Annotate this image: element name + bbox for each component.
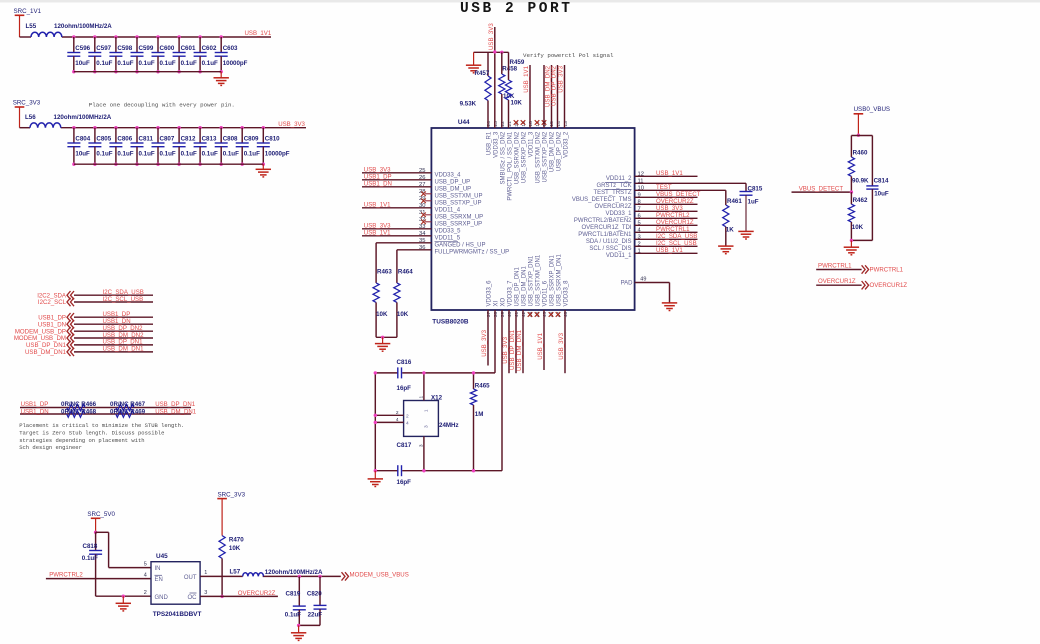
capacitor C820 <box>318 575 321 578</box>
resistor R459 <box>508 52 510 80</box>
svg-text:TUSB8020B: TUSB8020B <box>432 319 469 326</box>
wire net I2C_SCL_USB pin2 <box>635 245 698 247</box>
resistor R458 <box>500 51 503 54</box>
svg-text:Sch design engineer: Sch design engineer <box>19 444 82 451</box>
svg-text:USB_DM_DN1: USB_DM_DN1 <box>25 349 67 356</box>
svg-text:0.1uF: 0.1uF <box>244 150 260 157</box>
no-connect X pin 16 <box>542 120 547 125</box>
wire net USB_1V1 pin12 <box>635 175 698 177</box>
no-connect X pin 20 <box>514 120 519 125</box>
svg-text:SRC_1V1: SRC_1V1 <box>14 8 42 15</box>
svg-text:USB_3V3: USB_3V3 <box>558 65 565 92</box>
wire XO to crystal bottom <box>501 310 503 471</box>
wire USB_3V3 rail <box>20 127 31 129</box>
wire VDD33_2 stub <box>564 65 566 128</box>
svg-text:4: 4 <box>396 417 399 423</box>
svg-text:0R/NC R466: 0R/NC R466 <box>61 401 97 408</box>
svg-text:VDD33_2: VDD33_2 <box>564 131 570 158</box>
wire C820 to C819 join <box>299 624 320 626</box>
svg-text:2: 2 <box>144 590 147 596</box>
svg-text:SRC_3V3: SRC_3V3 <box>13 100 41 107</box>
wire net VBUS_DETECT pin9 <box>635 196 698 198</box>
svg-text:1K: 1K <box>726 227 734 234</box>
svg-text:0.1uF: 0.1uF <box>139 150 155 157</box>
resistor R467 <box>116 404 134 411</box>
svg-text:USB_DP_UP: USB_DP_UP <box>435 180 471 186</box>
svg-text:1: 1 <box>204 570 207 576</box>
wire crystal pin3 <box>423 436 425 470</box>
svg-text:1uF: 1uF <box>748 199 759 206</box>
inductor L56 <box>30 123 61 128</box>
svg-text:USB_SSTXP_DN1: USB_SSTXP_DN1 <box>529 255 535 306</box>
svg-text:SRC_3V3: SRC_3V3 <box>218 492 246 499</box>
svg-text:0.1uF: 0.1uF <box>181 150 197 157</box>
svg-text:10K: 10K <box>511 100 523 107</box>
svg-text:TEST_TRSTZ: TEST_TRSTZ <box>593 190 631 196</box>
capacitor C807 <box>156 126 159 129</box>
svg-text:0.1uF: 0.1uF <box>285 612 301 619</box>
ground crystal <box>374 471 376 479</box>
wire net USB_DM_DN1 <box>74 351 153 353</box>
resistor R463 <box>373 283 379 303</box>
capacitor C600 <box>156 35 159 38</box>
svg-text:L56: L56 <box>25 114 36 121</box>
svg-text:0.1uF: 0.1uF <box>139 60 155 67</box>
svg-text:R463: R463 <box>377 268 392 275</box>
svg-text:VDD11_1: VDD11_1 <box>606 253 632 259</box>
svg-text:VDD11_5: VDD11_5 <box>435 236 461 242</box>
svg-text:USB_SSRXM_DN1: USB_SSRXM_DN1 <box>557 253 563 306</box>
wire crystal pin2 <box>375 414 403 416</box>
svg-text:USB1_DN: USB1_DN <box>103 318 131 325</box>
svg-text:1: 1 <box>419 396 425 399</box>
capacitor C810 <box>262 126 265 129</box>
wire EN row <box>46 578 151 580</box>
svg-text:USB_1V1: USB_1V1 <box>523 65 530 92</box>
svg-text:VDD33_4: VDD33_4 <box>435 173 462 179</box>
wire VBUS_DETECT <box>792 191 852 193</box>
svg-text:USB_1V1: USB_1V1 <box>537 332 544 359</box>
svg-text:VBUS_DETECT: VBUS_DETECT <box>799 185 844 192</box>
svg-text:TEST: TEST <box>656 184 672 191</box>
svg-text:USB_SSTXM_DN1: USB_SSTXM_DN1 <box>536 254 542 306</box>
svg-text:PWRCTRL1: PWRCTRL1 <box>818 262 852 269</box>
resistor R465 <box>473 373 475 389</box>
svg-text:10K: 10K <box>852 224 864 231</box>
svg-text:VDD33_3: VDD33_3 <box>494 131 500 158</box>
wire VDD33_3 <box>494 27 496 128</box>
svg-text:C817: C817 <box>397 442 412 449</box>
svg-text:USB_SSTXP_DN2: USB_SSTXP_DN2 <box>543 131 549 182</box>
capacitor C808 <box>220 126 223 129</box>
wire divider bottom <box>851 239 872 241</box>
svg-text:USB1_DN: USB1_DN <box>364 181 392 188</box>
svg-text:PWRCTRL2: PWRCTRL2 <box>656 212 690 219</box>
svg-text:USB_3V3: USB_3V3 <box>558 332 565 359</box>
wire net USB_3V3 pin25 <box>362 172 431 174</box>
ground 1V1 rail <box>220 72 222 78</box>
svg-text:120ohm/100MHz/2A: 120ohm/100MHz/2A <box>54 23 112 30</box>
svg-text:USB_3V3: USB_3V3 <box>364 167 391 174</box>
svg-text:XO: XO <box>501 297 507 306</box>
top gray strip <box>0 0 1040 3</box>
wire USB_DM_DN2 stub <box>551 65 553 128</box>
svg-text:C599: C599 <box>139 45 154 52</box>
svg-text:PWRCTRL2: PWRCTRL2 <box>49 572 83 579</box>
svg-text:0.1uF: 0.1uF <box>181 60 197 67</box>
resistor R469 <box>116 411 134 418</box>
svg-text:R457: R457 <box>475 70 490 77</box>
wire net PWRCTRL1 pin4 <box>635 231 698 233</box>
wire USB_1V1 rail <box>20 36 32 38</box>
svg-text:C600: C600 <box>160 45 175 52</box>
svg-text:C810: C810 <box>265 136 280 143</box>
svg-text:C603: C603 <box>223 45 238 52</box>
wire gnd row U45 <box>96 595 151 597</box>
svg-text:USB_DM_DN1: USB_DM_DN1 <box>103 346 145 353</box>
svg-text:USB_DP_DN1: USB_DP_DN1 <box>103 339 144 346</box>
svg-text:C806: C806 <box>117 136 132 143</box>
svg-text:OVERCUR1Z: OVERCUR1Z <box>870 282 908 289</box>
svg-text:I2C_SCL_USB: I2C_SCL_USB <box>103 296 144 303</box>
capacitor C816 <box>397 367 399 378</box>
wire crystal pin4 <box>375 421 403 423</box>
svg-text:PAD: PAD <box>621 281 634 287</box>
svg-text:OVERCUR1Z: OVERCUR1Z <box>818 278 856 285</box>
svg-text:USB_DM_DN2: USB_DM_DN2 <box>550 131 556 172</box>
svg-text:R460: R460 <box>853 150 868 157</box>
svg-text:Placement is critical to mini: Placement is critical to minimize the ST… <box>19 422 184 429</box>
svg-text:GANGED / HS_UP: GANGED / HS_UP <box>435 243 486 249</box>
wire crystal left vertical <box>374 373 376 471</box>
svg-text:SCL / SSC_DIS: SCL / SSC_DIS <box>589 246 631 252</box>
svg-text:USB_DP_DN1: USB_DP_DN1 <box>26 342 67 349</box>
svg-text:41: 41 <box>514 312 520 318</box>
svg-text:MODEM_USB_VBUS: MODEM_USB_VBUS <box>350 572 409 579</box>
capacitor C603 <box>220 35 223 38</box>
svg-text:R462: R462 <box>853 197 868 204</box>
overbar GANGED <box>435 241 459 243</box>
svg-text:USB_DM_UP: USB_DM_UP <box>435 187 472 193</box>
wire crystal pin1 <box>423 373 425 401</box>
svg-text:C812: C812 <box>181 136 196 143</box>
svg-text:0.1uF: 0.1uF <box>202 60 218 67</box>
svg-text:VBUS_DETECT_TMS: VBUS_DETECT_TMS <box>572 197 632 203</box>
svg-text:XI: XI <box>494 300 500 306</box>
svg-text:TPS2041BDBVT: TPS2041BDBVT <box>153 611 202 618</box>
svg-text:VDD11_2: VDD11_2 <box>606 176 632 182</box>
svg-text:10K: 10K <box>397 311 409 318</box>
svg-text:USB_3V3: USB_3V3 <box>278 121 305 128</box>
svg-text:USB_R1: USB_R1 <box>487 131 493 155</box>
wire gnd bus 3V3 <box>74 163 263 165</box>
wire OUT row <box>200 575 243 577</box>
svg-text:USB_SSTXP_UP: USB_SSTXP_UP <box>435 201 482 207</box>
svg-text:OVERCUR2Z: OVERCUR2Z <box>238 590 276 597</box>
svg-text:18: 18 <box>528 121 534 127</box>
wire 3V3 horizontal <box>474 51 509 53</box>
no-connect X pin 17 <box>535 120 540 125</box>
resistor R468 <box>67 411 85 418</box>
svg-text:C820: C820 <box>307 590 322 597</box>
svg-text:SRC_5V0: SRC_5V0 <box>87 511 115 518</box>
ground PAD <box>662 302 677 304</box>
svg-text:0.1uF: 0.1uF <box>96 60 112 67</box>
svg-text:Place one decoupling with ever: Place one decoupling with every power pi… <box>89 101 235 108</box>
svg-text:45: 45 <box>542 312 548 318</box>
wire net OVERCUR2Z pin8 <box>635 203 698 205</box>
op-amp U45 body TPS2041BDBVT <box>151 562 200 605</box>
no-connect X pin 28 <box>425 193 431 195</box>
wire net PWRCTRL2 pin6 <box>635 217 698 219</box>
capacitor C813 <box>198 126 201 129</box>
svg-text:OUT: OUT <box>184 575 197 581</box>
svg-text:USB_3V3: USB_3V3 <box>502 336 509 363</box>
ground C819 C820 <box>298 625 300 632</box>
capacitor C809 <box>241 126 244 129</box>
svg-text:R458: R458 <box>502 66 517 73</box>
svg-text:C598: C598 <box>117 45 132 52</box>
wire USB_DM_DN1 stub <box>522 310 524 373</box>
svg-text:Verify powerctl Pol signal: Verify powerctl Pol signal <box>523 52 614 59</box>
svg-text:5: 5 <box>144 561 147 567</box>
svg-text:L55: L55 <box>26 23 37 30</box>
op-amp U44 body TUSB8020B <box>431 128 634 310</box>
capacitor C812 <box>177 126 180 129</box>
svg-text:VDD33_1: VDD33_1 <box>605 211 632 217</box>
wire net USB1_DN <box>74 323 153 325</box>
svg-text:USB_DP_DN1: USB_DP_DN1 <box>155 401 196 408</box>
svg-text:VDD11_3: VDD11_3 <box>529 131 535 157</box>
svg-text:0R/NC R467: 0R/NC R467 <box>110 401 146 408</box>
svg-text:C808: C808 <box>223 136 238 143</box>
inductor L57 <box>243 573 264 577</box>
svg-text:10uF: 10uF <box>874 191 889 198</box>
svg-text:USB_DM_DN1: USB_DM_DN1 <box>516 329 523 371</box>
resistor R466 <box>67 404 85 411</box>
svg-text:C809: C809 <box>244 136 259 143</box>
svg-text:PWRCTRL1: PWRCTRL1 <box>870 266 904 273</box>
svg-text:X12: X12 <box>431 395 443 402</box>
svg-text:24: 24 <box>486 121 492 127</box>
wire net USB_DP_DN1 <box>74 344 153 346</box>
svg-text:2: 2 <box>396 410 399 416</box>
svg-text:PWRCTRL2/BATEN2: PWRCTRL2/BATEN2 <box>574 218 632 224</box>
resistor R464 <box>394 283 400 303</box>
svg-text:C805: C805 <box>96 136 111 143</box>
wire net USB1_DN pin27 <box>362 186 431 188</box>
capacitor C597 <box>93 35 96 38</box>
svg-text:0.1uF: 0.1uF <box>160 60 176 67</box>
svg-text:USB_3V3: USB_3V3 <box>656 205 683 212</box>
capacitor C814 <box>866 185 878 187</box>
svg-text:40: 40 <box>507 312 513 318</box>
wire TEST_TRSTZ to R461 <box>635 189 726 191</box>
svg-text:I2C_SDA_USB: I2C_SDA_USB <box>656 233 697 240</box>
wire gnd bus 1V1 <box>74 71 221 73</box>
wire USB_DP_DN2 stub <box>557 65 559 128</box>
svg-text:4: 4 <box>406 421 409 427</box>
off-page connector MODEM_USB_VBUS <box>342 572 346 580</box>
svg-text:0.1uF: 0.1uF <box>160 150 176 157</box>
svg-text:Target is Zero Stub length. Di: Target is Zero Stub length. Discuss poss… <box>19 429 164 436</box>
svg-text:C815: C815 <box>748 186 763 193</box>
svg-text:USB1_DP: USB1_DP <box>21 401 49 408</box>
wire VDD11_6 stub <box>543 310 545 370</box>
wire OC row OVERCUR2Z <box>200 595 278 597</box>
svg-text:USB_SSRXM_UP: USB_SSRXM_UP <box>435 215 484 221</box>
svg-text:OC: OC <box>188 595 198 601</box>
svg-text:U45: U45 <box>156 553 168 560</box>
no-connect X pin 31 <box>425 214 431 216</box>
svg-text:10000pF: 10000pF <box>265 150 290 157</box>
wire net I2C_SCL_USB <box>74 301 153 303</box>
svg-text:VDD11_6: VDD11_6 <box>543 280 549 306</box>
svg-text:USB1_DP: USB1_DP <box>103 311 131 318</box>
ground U45 <box>122 596 124 603</box>
svg-text:PWRCTL_POL / SS_DN1: PWRCTL_POL / SS_DN1 <box>508 131 514 200</box>
svg-text:120ohm/100MHz/2A: 120ohm/100MHz/2A <box>265 569 323 576</box>
svg-text:10uF: 10uF <box>75 60 90 67</box>
svg-text:39: 39 <box>500 312 506 318</box>
capacitor C602 <box>198 35 201 38</box>
capacitor C818 <box>95 532 97 550</box>
svg-text:VBUS_DETECT: VBUS_DETECT <box>656 191 701 198</box>
svg-text:10K: 10K <box>376 311 388 318</box>
ground C815 <box>738 230 753 232</box>
svg-text:C596: C596 <box>75 45 90 52</box>
wire net I2C_SDA_USB <box>74 294 153 296</box>
svg-text:3: 3 <box>424 425 430 428</box>
svg-text:USB_3V3: USB_3V3 <box>364 223 391 230</box>
svg-text:PWRCTL1/BATEN1: PWRCTL1/BATEN1 <box>578 232 632 238</box>
svg-text:VDD11_4: VDD11_4 <box>435 208 461 214</box>
svg-text:0.1uF: 0.1uF <box>117 150 133 157</box>
no-connect X pin 29 <box>425 200 431 202</box>
resistor R462 <box>850 192 852 204</box>
svg-text:USB_SSTXM_UP: USB_SSTXM_UP <box>435 194 483 200</box>
svg-text:10K: 10K <box>229 545 241 552</box>
wire pin35 to R463 <box>376 242 431 244</box>
svg-text:GND: GND <box>155 595 169 601</box>
capacitor C599 <box>135 35 138 38</box>
no-connect X pin 19 <box>521 120 526 125</box>
svg-text:OVERCUR1Z: OVERCUR1Z <box>656 219 694 226</box>
resistor R461 <box>723 205 729 227</box>
svg-text:42: 42 <box>521 312 527 318</box>
svg-text:USB_DP_DN2: USB_DP_DN2 <box>551 65 558 106</box>
svg-text:FULLPWRMGMTz / SS_UP: FULLPWRMGMTz / SS_UP <box>435 250 510 256</box>
svg-text:C811: C811 <box>139 136 154 143</box>
wire GRSTz to C815 <box>635 182 746 184</box>
wire divider top <box>851 135 872 137</box>
svg-text:GRSTz_TCK: GRSTz_TCK <box>596 183 631 189</box>
svg-text:USB_1V1: USB_1V1 <box>364 230 391 237</box>
capacitor C804 <box>72 126 75 129</box>
svg-text:USB_DM_DN1: USB_DM_DN1 <box>155 409 197 416</box>
capacitor C806 <box>114 126 117 129</box>
svg-text:0R/NC R468: 0R/NC R468 <box>61 409 97 416</box>
no-connect X pin 44 <box>535 312 540 317</box>
no-connect X pin 43 <box>528 312 533 317</box>
capacitor C805 <box>93 126 96 129</box>
svg-text:0.1uF: 0.1uF <box>202 150 218 157</box>
resistor R470 <box>219 536 225 559</box>
svg-text:PWRCTRL1: PWRCTRL1 <box>656 226 690 233</box>
svg-text:VDD33_7: VDD33_7 <box>508 280 514 307</box>
svg-text:USB1_DP: USB1_DP <box>364 174 392 181</box>
svg-text:38: 38 <box>493 312 499 318</box>
svg-text:R465: R465 <box>475 383 490 390</box>
svg-text:C819: C819 <box>286 590 301 597</box>
svg-text:C601: C601 <box>181 45 196 52</box>
capacitor C601 <box>177 35 180 38</box>
svg-text:16pF: 16pF <box>397 385 412 392</box>
svg-text:22: 22 <box>500 121 506 127</box>
wire USB1_DN to USB_DM_DN1 <box>20 413 191 415</box>
svg-text:0.1uF: 0.1uF <box>82 555 98 562</box>
svg-text:VDD33_5: VDD33_5 <box>435 229 462 235</box>
svg-text:USB_DP_DN2: USB_DP_DN2 <box>557 131 563 171</box>
capacitor C819 <box>298 575 301 578</box>
capacitor C596 <box>72 35 75 38</box>
svg-text:0.1uF: 0.1uF <box>223 150 239 157</box>
ground R461 <box>718 245 733 247</box>
no-connect X pin 46 <box>549 312 554 317</box>
ground 3V3 rail <box>262 164 264 169</box>
svg-text:C818: C818 <box>83 543 98 550</box>
svg-text:SMBUSz / SS_DN2: SMBUSz / SS_DN2 <box>501 131 507 184</box>
svg-text:VDD33_8: VDD33_8 <box>564 280 570 307</box>
svg-text:USB_SSRXM_DN2: USB_SSRXM_DN2 <box>515 131 521 184</box>
svg-text:0.1uF: 0.1uF <box>117 60 133 67</box>
svg-text:0.1uF: 0.1uF <box>96 150 112 157</box>
svg-text:USB0_VBUS: USB0_VBUS <box>854 106 890 113</box>
wire USB_DP_DN1 stub <box>515 310 517 373</box>
svg-text:C597: C597 <box>96 45 111 52</box>
svg-text:USB_DP_DN1: USB_DP_DN1 <box>509 329 516 370</box>
svg-text:16pF: 16pF <box>397 479 412 486</box>
svg-text:I2C_SCL_USB: I2C_SCL_USB <box>656 240 697 247</box>
svg-text:C807: C807 <box>160 136 175 143</box>
svg-text:4: 4 <box>144 572 147 578</box>
ground divider <box>850 240 852 247</box>
wire net USB_DP_DN2 <box>74 330 153 332</box>
svg-text:3: 3 <box>419 444 425 447</box>
no-connect X pin 32 <box>425 221 431 223</box>
svg-text:3: 3 <box>204 590 207 596</box>
wire VDD11_3 stub <box>529 65 531 128</box>
capacitor C815 <box>740 191 753 193</box>
wire R463 R464 join <box>376 336 397 338</box>
wire net USB_1V1 pin30 <box>362 207 431 209</box>
svg-text:1M: 1M <box>475 411 484 418</box>
svg-text:R464: R464 <box>398 268 413 275</box>
svg-text:1: 1 <box>424 409 430 412</box>
svg-text:10000pF: 10000pF <box>223 60 248 67</box>
svg-text:USB1_DN: USB1_DN <box>38 321 66 328</box>
wire VDD33_6 stub <box>487 310 489 366</box>
svg-text:USB_SSRXP_UP: USB_SSRXP_UP <box>435 222 483 228</box>
svg-text:EN: EN <box>155 577 163 583</box>
svg-text:R470: R470 <box>229 537 244 544</box>
wire net USB1_DP <box>74 316 153 318</box>
svg-text:90.9K: 90.9K <box>852 178 869 185</box>
wire net USB_3V3 pin7 <box>635 210 698 212</box>
svg-text:48: 48 <box>563 312 569 318</box>
svg-text:U44: U44 <box>458 119 470 126</box>
svg-text:L57: L57 <box>230 569 241 576</box>
